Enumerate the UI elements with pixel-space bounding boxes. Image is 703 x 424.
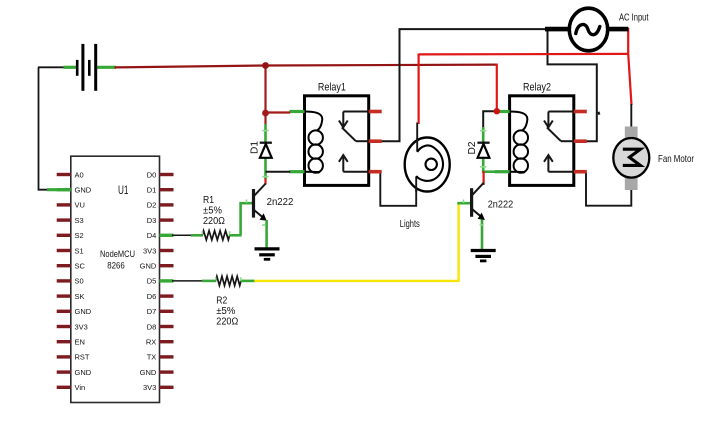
svg-text:2n222: 2n222 <box>267 196 294 208</box>
svg-text:8266: 8266 <box>107 261 125 272</box>
svg-text:D1: D1 <box>249 141 260 154</box>
svg-text:A0: A0 <box>75 170 84 179</box>
svg-text:3V3: 3V3 <box>75 322 88 331</box>
svg-text:R1: R1 <box>203 195 214 206</box>
svg-text:AC Input: AC Input <box>619 12 649 24</box>
svg-text:U1: U1 <box>118 183 129 197</box>
svg-text:D2: D2 <box>147 201 157 210</box>
svg-text:220Ω: 220Ω <box>203 216 225 227</box>
svg-text:R2: R2 <box>216 296 227 307</box>
svg-text:S2: S2 <box>75 231 84 240</box>
svg-text:S3: S3 <box>75 216 84 225</box>
svg-text:D4: D4 <box>147 231 157 240</box>
svg-text:SC: SC <box>75 262 86 271</box>
svg-text:D7: D7 <box>147 307 157 316</box>
svg-text:Vin: Vin <box>75 383 86 392</box>
svg-text:D3: D3 <box>147 216 157 225</box>
svg-text:VU: VU <box>75 201 85 210</box>
svg-text:Lights: Lights <box>400 218 420 230</box>
svg-text:3V3: 3V3 <box>143 246 156 255</box>
svg-text:Fan Motor: Fan Motor <box>658 153 694 165</box>
svg-text:S1: S1 <box>75 246 84 255</box>
svg-text:NodeMCU: NodeMCU <box>100 249 135 260</box>
svg-text:GND: GND <box>75 307 92 316</box>
svg-text:3V3: 3V3 <box>143 383 156 392</box>
svg-text:220Ω: 220Ω <box>216 316 238 327</box>
svg-text:D1: D1 <box>147 186 157 195</box>
svg-text:Relay1: Relay1 <box>318 81 346 93</box>
svg-text:Relay2: Relay2 <box>523 81 551 93</box>
svg-text:GND: GND <box>75 368 92 377</box>
svg-text:D8: D8 <box>147 322 157 331</box>
svg-text:GND: GND <box>140 368 157 377</box>
svg-text:GND: GND <box>75 186 92 195</box>
svg-text:D6: D6 <box>147 292 157 301</box>
svg-text:2n222: 2n222 <box>488 198 514 210</box>
svg-text:D5: D5 <box>147 277 157 286</box>
svg-text:D0: D0 <box>147 170 157 179</box>
svg-text:GND: GND <box>140 262 157 271</box>
svg-text:S0: S0 <box>75 277 84 286</box>
svg-text:RX: RX <box>146 338 156 347</box>
svg-text:RST: RST <box>75 353 90 362</box>
svg-text:EN: EN <box>75 338 85 347</box>
svg-text:SK: SK <box>75 292 85 301</box>
svg-text:D2: D2 <box>467 141 478 154</box>
svg-text:TX: TX <box>147 353 157 362</box>
